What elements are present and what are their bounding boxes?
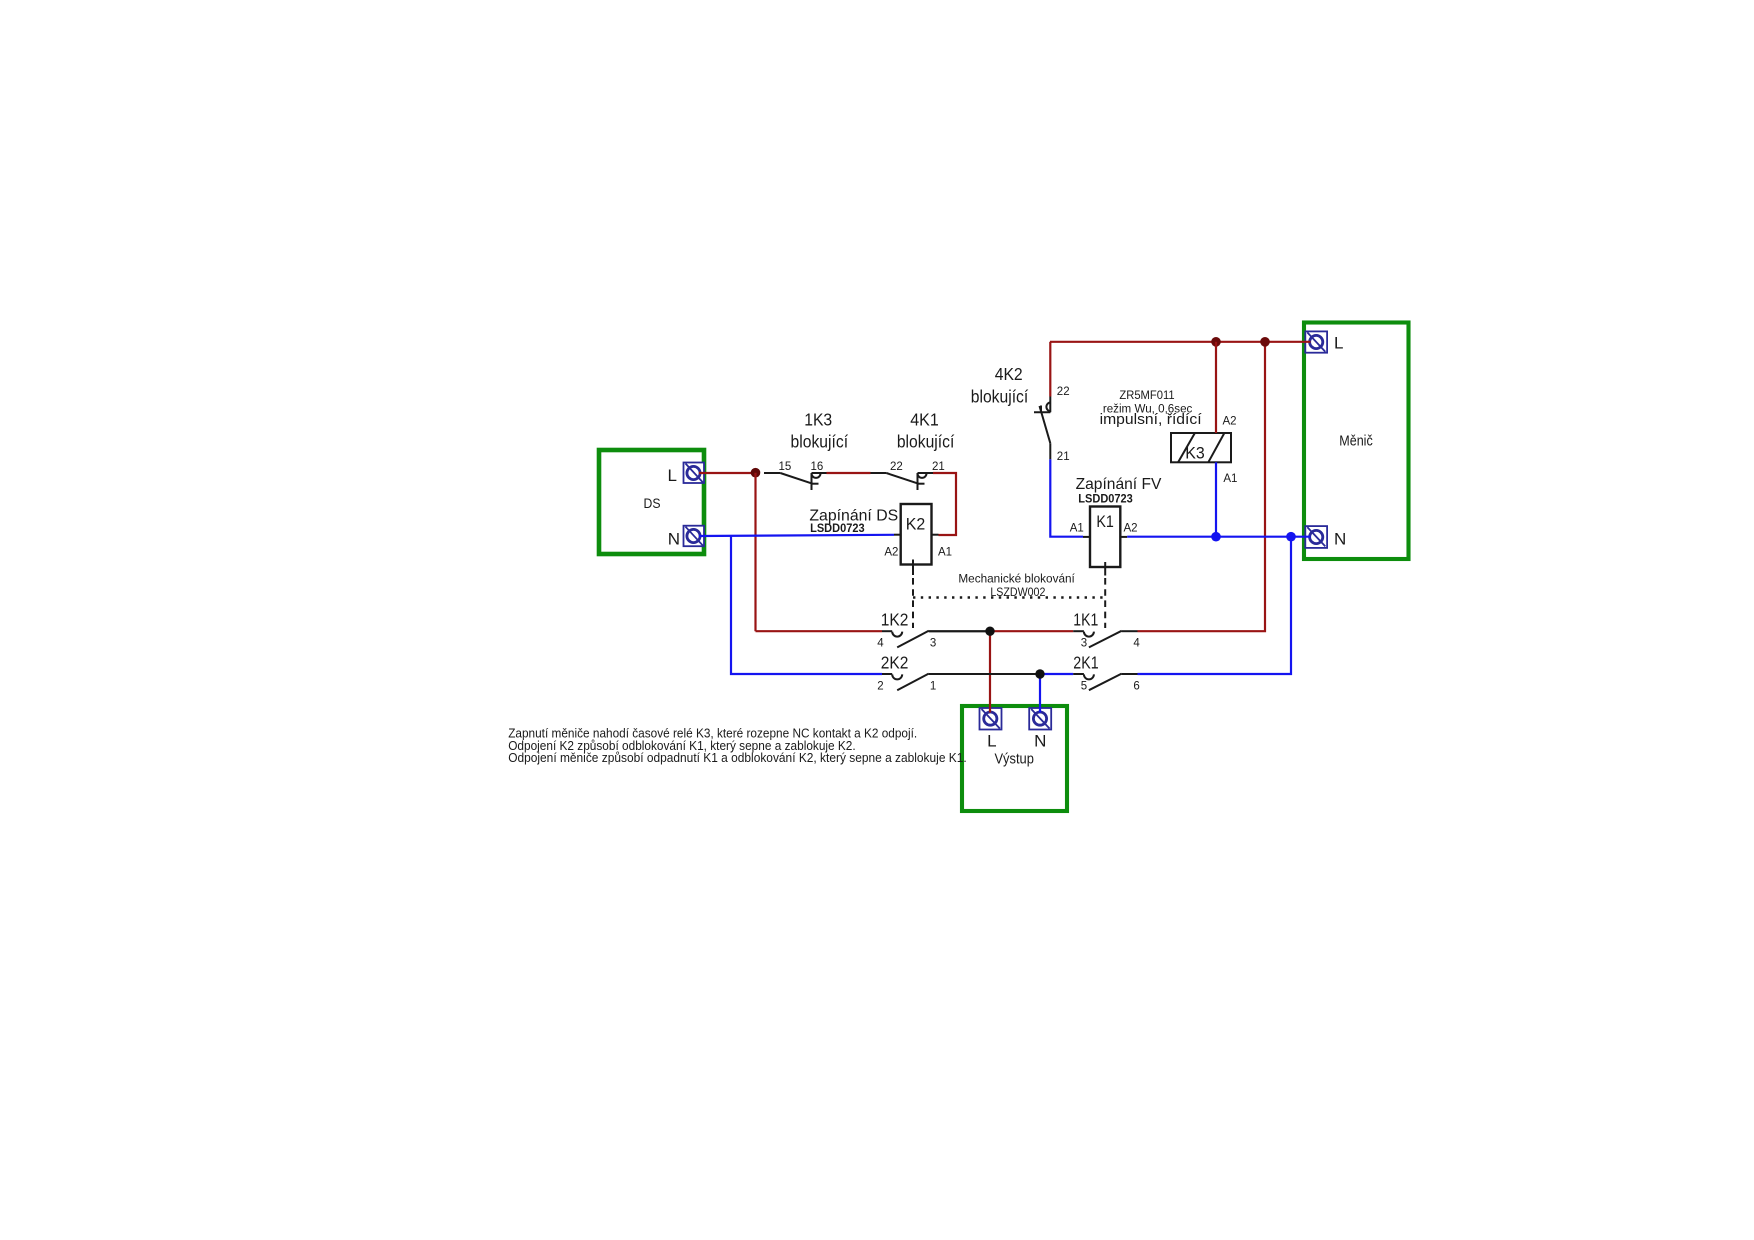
- svg-text:Zapínání DS: Zapínání DS: [809, 507, 898, 524]
- interlock: dashed line from K2: [912, 578, 914, 628]
- contact 2K2 (NO, pins 2-1): [882, 674, 1040, 691]
- svg-text:2: 2: [877, 680, 883, 692]
- wire L: row1 left to 1K2 contact: [756, 630, 883, 632]
- wire L: top bus: [1050, 341, 1311, 343]
- svg-text:A1: A1: [938, 547, 952, 559]
- svg-text:1: 1: [930, 680, 936, 692]
- svg-text:3: 3: [1081, 638, 1087, 650]
- svg-text:4K2: 4K2: [995, 364, 1023, 384]
- svg-text:LSZDW002: LSZDW002: [990, 585, 1045, 599]
- svg-text:2K2: 2K2: [881, 653, 909, 673]
- contact 4K1 (NC, pins 22-21): [871, 473, 934, 490]
- interlock: dotted line: [913, 596, 1105, 598]
- box Menic: [1304, 323, 1409, 560]
- svg-text:22: 22: [890, 461, 903, 473]
- wire N: row2 dot down to Vystup N: [1039, 674, 1041, 713]
- box Vystup: [962, 706, 1067, 811]
- interlock: dashed line from K1: [1104, 578, 1106, 628]
- svg-text:A1: A1: [1070, 523, 1084, 535]
- wire L: DS L terminal to junction: [699, 472, 756, 474]
- svg-text:Mechanické blokování: Mechanické blokování: [958, 571, 1075, 585]
- svg-text:blokující: blokující: [971, 387, 1029, 407]
- svg-text:A2: A2: [1223, 416, 1237, 428]
- svg-text:1K2: 1K2: [881, 610, 909, 630]
- wire N: K3 A1 down to N bus: [1215, 462, 1217, 536]
- svg-text:K2: K2: [906, 515, 926, 534]
- svg-text:A2: A2: [884, 547, 898, 559]
- svg-text:N: N: [1334, 529, 1346, 548]
- relay coil K2: [894, 504, 939, 575]
- node: junction dot L bus at 1K1 branch: [1260, 337, 1270, 347]
- wire L: bus down to 4K2 pin22: [1049, 342, 1051, 397]
- wire L: junction down to 1K2 row: [754, 473, 756, 632]
- relay coil K1: [1083, 507, 1127, 576]
- svg-text:L: L: [668, 466, 677, 485]
- terminal Vystup L: [980, 708, 1002, 751]
- wire: black segment row1 arm to dot: [929, 630, 990, 632]
- wire L: row1 dot to 1K1: [990, 630, 1073, 632]
- svg-text:2K1: 2K1: [1073, 653, 1098, 673]
- svg-text:ZR5MF011: ZR5MF011: [1119, 388, 1174, 402]
- svg-text:21: 21: [1057, 451, 1070, 463]
- svg-text:L: L: [1334, 333, 1343, 352]
- terminal Vystup N: [1029, 708, 1051, 751]
- svg-text:A1: A1: [1223, 473, 1237, 485]
- svg-text:DS: DS: [644, 495, 661, 511]
- svg-text:Výstup: Výstup: [994, 751, 1034, 767]
- svg-text:Odpojení měniče způsobí odpadn: Odpojení měniče způsobí odpadnutí K1 a o…: [508, 750, 967, 765]
- svg-text:impulsní, řídící: impulsní, řídící: [1100, 411, 1203, 428]
- contact 4K2 (NC vertical, pins 22-21): [1034, 397, 1051, 460]
- terminal DS L: [668, 463, 704, 486]
- svg-text:N: N: [1034, 732, 1046, 751]
- node: junction dot row2 (black): [1035, 669, 1044, 678]
- svg-text:4: 4: [1133, 638, 1140, 650]
- svg-text:K3: K3: [1185, 444, 1205, 463]
- svg-text:1K1: 1K1: [1073, 610, 1098, 630]
- wire N: branch down to 2K2 row: [731, 536, 882, 674]
- wire N: row2 dot to 2K1: [1040, 673, 1073, 675]
- contact 1K2 (NO, pins 4-3): [882, 631, 990, 648]
- node: junction dot at DS L branch: [751, 468, 761, 478]
- svg-text:22: 22: [1057, 386, 1070, 398]
- node: junction dot N at 2K1 branch: [1286, 532, 1296, 542]
- wire N: K1 A2 to Menic N with branches: [1127, 536, 1310, 538]
- svg-text:4K1: 4K1: [910, 409, 939, 429]
- contact 1K1 (NO, pins 3-4): [1073, 631, 1137, 648]
- wire L: bus down to K3 A2: [1215, 342, 1217, 433]
- svg-text:K1: K1: [1096, 512, 1114, 531]
- svg-text:Měnič: Měnič: [1339, 434, 1373, 450]
- svg-text:A2: A2: [1124, 523, 1138, 535]
- node: junction dot row1 (black): [985, 627, 994, 636]
- svg-text:4: 4: [877, 638, 884, 650]
- contact 1K3 (NC, pins 15-16): [764, 473, 827, 490]
- relay coil K3 (time relay): [1171, 433, 1231, 463]
- svg-text:15: 15: [779, 461, 792, 473]
- svg-text:21: 21: [932, 461, 945, 473]
- wire L: between 1K3 and 4K1: [827, 472, 871, 474]
- svg-text:LSDD0723: LSDD0723: [810, 523, 865, 535]
- wire N: DS N terminal to K2 A2: [699, 535, 894, 536]
- svg-text:1K3: 1K3: [804, 409, 832, 429]
- wire N: 2K1 pin6 right and up to N bus: [1138, 537, 1292, 674]
- wire L: row1 dot down to Vystup L: [989, 631, 991, 712]
- svg-text:blokující: blokující: [791, 431, 849, 451]
- wire L: 1K1 pin4 right and up to L bus: [1138, 342, 1266, 631]
- terminal Menic L: [1305, 331, 1343, 352]
- wire N: 4K2 pin21 down and to K1 A1: [1050, 459, 1083, 536]
- terminal DS N: [668, 526, 704, 549]
- svg-text:LSDD0723: LSDD0723: [1078, 494, 1133, 506]
- node: junction dot N at K3 A1: [1211, 532, 1221, 542]
- note text block: [508, 725, 967, 765]
- svg-text:6: 6: [1133, 680, 1139, 692]
- svg-text:16: 16: [811, 461, 824, 473]
- svg-text:L: L: [987, 732, 996, 751]
- svg-text:3: 3: [930, 638, 936, 650]
- svg-text:5: 5: [1081, 680, 1087, 692]
- svg-text:Zapínání FV: Zapínání FV: [1076, 476, 1162, 493]
- svg-text:blokující: blokující: [897, 431, 955, 451]
- wire L: 4K1 pin21 to K2 A1: [933, 473, 956, 535]
- node: junction dot L bus at K3 branch: [1211, 337, 1221, 347]
- terminal Menic N: [1305, 526, 1346, 548]
- contact 2K1 (NO, pins 5-6): [1073, 674, 1137, 691]
- box DS: [599, 450, 704, 554]
- svg-text:N: N: [668, 529, 680, 548]
